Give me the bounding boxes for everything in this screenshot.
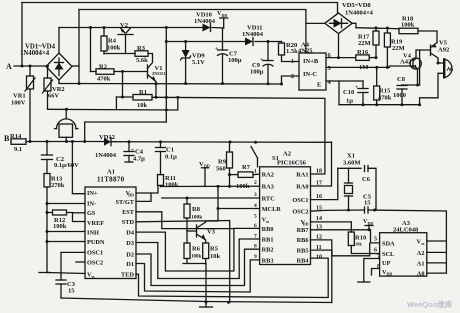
- svg-text:100k: 100k: [107, 45, 121, 52]
- svg-text:RB3: RB3: [262, 257, 274, 264]
- resistor R11: [158, 175, 164, 186]
- svg-text:7: 7: [377, 254, 380, 260]
- svg-text:GS: GS: [87, 210, 96, 217]
- resistor R7: [230, 174, 239, 176]
- wire A3 pin8 stub: [372, 269, 380, 276]
- svg-text:VD5~VD8: VD5~VD8: [342, 2, 371, 9]
- wire vertical x166 from rail27 down to L3: [165, 28, 167, 123]
- svg-text:R8: R8: [192, 206, 201, 213]
- svg-text:100μ: 100μ: [250, 69, 264, 76]
- svg-text:EST: EST: [122, 209, 135, 216]
- svg-text:VD12: VD12: [99, 134, 115, 141]
- capacitor C8: [401, 84, 403, 87]
- varistor VR2: [47, 66, 49, 78]
- wire rail y41.5: [166, 41, 245, 43]
- wire rail y27.5 (top DC rail): [59, 27, 202, 29]
- svg-text:100V: 100V: [11, 100, 26, 107]
- svg-text:RB7: RB7: [297, 227, 309, 234]
- svg-text:5: 5: [374, 237, 377, 243]
- node B and resistor R14: [10, 141, 12, 143]
- svg-text:R1: R1: [139, 89, 147, 96]
- svg-text:1N4004: 1N4004: [242, 31, 264, 38]
- label A2 right pins: [292, 172, 309, 265]
- svg-text:V2: V2: [120, 22, 128, 29]
- svg-text:OSC2: OSC2: [87, 259, 103, 266]
- chip A2 PIC16C56 box: [260, 167, 311, 265]
- svg-text:1: 1: [291, 59, 294, 65]
- wire bridge1 top riser to top rail y28: [58, 28, 60, 54]
- svg-text:ss: ss: [421, 241, 425, 246]
- wire A1 VDD pin hook to rail: [136, 187, 158, 194]
- svg-text:10: 10: [316, 255, 322, 261]
- capacitor C10: [362, 81, 364, 89]
- svg-text:4.7μ: 4.7μ: [133, 156, 145, 163]
- svg-text:R7: R7: [242, 164, 251, 171]
- svg-text:RA3: RA3: [262, 183, 274, 190]
- wire second top rail to A4 drop: [79, 10, 306, 54]
- label A2 pin numbers right: [316, 169, 322, 261]
- svg-text:RB5: RB5: [297, 247, 309, 254]
- svg-text:2N5551: 2N5551: [152, 71, 166, 76]
- svg-text:OSC1: OSC1: [292, 197, 308, 204]
- svg-text:5: 5: [254, 214, 257, 220]
- diode VD11: [245, 38, 253, 46]
- wire A2 RB6 down: [311, 240, 332, 303]
- svg-text:V3: V3: [207, 229, 216, 236]
- svg-text:4N25: 4N25: [298, 48, 313, 55]
- wire INH: [47, 231, 85, 233]
- wire VDD rail y186.5 into A2 RA3: [161, 185, 260, 187]
- svg-text:17: 17: [316, 181, 322, 187]
- svg-text:RA1: RA1: [296, 172, 308, 179]
- wire drop to R2 from rail: [90, 28, 92, 72]
- resistor R2: [91, 71, 97, 73]
- svg-text:RB0: RB0: [262, 226, 274, 233]
- wire A3 UP pin to ground: [364, 259, 380, 283]
- svg-text:470k: 470k: [97, 76, 111, 83]
- svg-text:RA2: RA2: [262, 172, 274, 179]
- wire A2 OSC2 crystal bottom line: [311, 210, 365, 211]
- svg-text:8: 8: [377, 264, 380, 270]
- diode VD10: [203, 24, 211, 32]
- svg-text:A1: A1: [417, 260, 425, 267]
- svg-text:270k: 270k: [51, 182, 65, 189]
- wire A2 VDD pin14 to R10: [311, 221, 352, 223]
- wire A1 D3 to A2 RB1: [136, 239, 260, 279]
- svg-text:2: 2: [254, 180, 257, 186]
- svg-text:INH: INH: [87, 229, 99, 236]
- bridge rectifier VD5~VD8: [325, 13, 352, 34]
- zener VD9: [185, 42, 187, 51]
- wire A1 D2 to A2 RB2: [136, 249, 260, 285]
- wire A2 RB7 to SDA: [311, 230, 380, 243]
- wire RTC line with R8: [162, 197, 260, 199]
- resistor R8: [186, 198, 188, 204]
- label A2 pin numbers left: [254, 169, 257, 261]
- svg-text:D4: D4: [126, 229, 135, 236]
- svg-text:6: 6: [374, 248, 377, 254]
- svg-text:DD: DD: [303, 222, 309, 227]
- svg-text:D1: D1: [126, 261, 134, 268]
- svg-text:15: 15: [316, 206, 322, 212]
- wire bridge2 bottom riser: [338, 34, 340, 58]
- svg-text:WeeQoo维库: WeeQoo维库: [407, 299, 453, 309]
- wire A1 ST/GT hook: [136, 193, 151, 201]
- power VDD tap at C7: [223, 18, 225, 28]
- svg-text:A92: A92: [438, 47, 449, 54]
- svg-text:22M: 22M: [358, 40, 371, 47]
- resistor R20: [281, 42, 283, 44]
- ground stub mid: [205, 264, 207, 307]
- transistor V4: [410, 58, 421, 69]
- svg-text:15: 15: [68, 288, 75, 295]
- svg-text:R6: R6: [192, 246, 201, 253]
- wire A1 TED to A2 RB4 bottom path: [136, 258, 328, 297]
- svg-text:RB4: RB4: [297, 257, 310, 264]
- svg-text:OSC2: OSC2: [292, 209, 308, 216]
- svg-text:0.1μ/60V: 0.1μ/60V: [54, 162, 79, 169]
- capacitor C3: [56, 279, 66, 281]
- svg-text:DD: DD: [222, 13, 228, 18]
- ground bar A1 left: [39, 272, 50, 274]
- wire A4 pin6 line with R16: [326, 57, 356, 59]
- svg-text:X1: X1: [347, 153, 355, 160]
- label A1 left pins: [87, 190, 105, 279]
- svg-text:IN-: IN-: [87, 201, 96, 208]
- svg-text:V5: V5: [439, 40, 448, 47]
- svg-text:18: 18: [316, 169, 322, 175]
- svg-text:C6: C6: [362, 176, 371, 183]
- label A3 left pins: [382, 240, 395, 276]
- svg-text:ss: ss: [266, 219, 270, 224]
- svg-text:+: +: [215, 46, 218, 52]
- label plus marks on polarized caps: [131, 46, 358, 154]
- svg-text:10k: 10k: [355, 242, 363, 247]
- svg-text:560: 560: [216, 166, 226, 173]
- svg-text:8: 8: [254, 244, 257, 250]
- chip A3 24LC048 box: [380, 233, 427, 276]
- resistor R15: [376, 67, 378, 86]
- resistor R5: [203, 243, 209, 259]
- svg-text:66V: 66V: [48, 93, 60, 100]
- chip A1 MT8870 box: [85, 187, 136, 279]
- svg-text:22M: 22M: [392, 45, 405, 52]
- svg-text:R10: R10: [355, 235, 366, 242]
- svg-text:RA0: RA0: [296, 183, 308, 190]
- svg-text:ss: ss: [92, 274, 96, 279]
- svg-text:3: 3: [254, 192, 257, 198]
- transistor V1: [147, 65, 149, 78]
- wire bridge1 right vertex to vertical riser: [72, 65, 79, 67]
- wire top rail from left corner to bridge2 top: [22, 3, 338, 14]
- resistor R1 on wire L1 to A2 RA1 pin18: [116, 96, 133, 98]
- svg-text:9: 9: [254, 254, 257, 260]
- resistor R16: [356, 55, 369, 61]
- wire IN-: [47, 203, 85, 205]
- svg-text:15: 15: [364, 200, 371, 207]
- svg-text:13: 13: [316, 225, 322, 231]
- svg-text:DD: DD: [128, 193, 134, 198]
- transistor V5: [430, 45, 432, 56]
- svg-text:VR1: VR1: [13, 93, 26, 100]
- svg-text:RB2: RB2: [262, 247, 274, 254]
- wire PUDN: [47, 241, 85, 243]
- resistor R3: [104, 53, 135, 55]
- svg-text:1μ: 1μ: [346, 98, 353, 105]
- svg-text:+: +: [355, 85, 358, 91]
- svg-text:A: A: [6, 62, 12, 71]
- svg-text:100k: 100k: [401, 22, 415, 29]
- svg-text:A42: A42: [400, 59, 411, 66]
- wire A1 D1 to A2 RB3: [136, 260, 260, 292]
- switch S1: [251, 147, 258, 159]
- resistor R9: [229, 142, 231, 152]
- wire A1 STD long to A2 Vss drop: [136, 221, 230, 303]
- svg-text:1000: 1000: [393, 92, 406, 99]
- power VDD symbol A3: [368, 226, 370, 230]
- capacitor C4: [128, 142, 130, 152]
- resistor R19: [386, 28, 388, 33]
- resistor R10: [350, 222, 352, 232]
- svg-text:ST/GT: ST/GT: [115, 199, 134, 206]
- svg-text:PUDN: PUDN: [87, 239, 105, 246]
- svg-text:9.1: 9.1: [14, 146, 22, 153]
- svg-text:470k: 470k: [378, 95, 392, 102]
- svg-text:VREF: VREF: [87, 220, 104, 227]
- svg-text:100k: 100k: [53, 223, 67, 230]
- svg-text:D2: D2: [126, 251, 134, 258]
- wire A4 pin2 to return rail: [282, 76, 300, 84]
- svg-text:OSC1: OSC1: [87, 250, 103, 257]
- svg-text:C1: C1: [166, 147, 174, 154]
- wire top right rail y27.7: [356, 27, 395, 30]
- wire A4 pin4 E line: [326, 80, 363, 82]
- svg-text:DD: DD: [204, 164, 210, 169]
- svg-text:E: E: [317, 82, 321, 89]
- transistor V2: [118, 34, 133, 36]
- svg-text:SCL: SCL: [382, 251, 394, 258]
- svg-text:5.1V: 5.1V: [192, 59, 205, 66]
- svg-text:1.5k: 1.5k: [286, 48, 298, 55]
- svg-text:16: 16: [316, 194, 322, 200]
- wire bottom rail right: [339, 104, 420, 106]
- wire IN+ vertical from B rail: [72, 142, 85, 194]
- svg-text:R2: R2: [99, 64, 107, 71]
- wire R2 drop to R1: [122, 72, 124, 98]
- resistor R18: [399, 28, 418, 34]
- svg-text:100μ: 100μ: [228, 57, 242, 64]
- svg-text:C4: C4: [135, 149, 144, 156]
- svg-text:100k: 100k: [191, 215, 203, 221]
- svg-text:C10: C10: [343, 89, 354, 96]
- svg-text:100k: 100k: [236, 183, 250, 190]
- svg-text:R9: R9: [218, 159, 227, 166]
- svg-text:0.1μ: 0.1μ: [165, 154, 177, 161]
- svg-text:TED: TED: [121, 272, 134, 279]
- bridge rectifier VD1~VD4: [46, 53, 72, 80]
- svg-text:R15: R15: [379, 88, 391, 95]
- wire bridge2 right vertex to rail: [352, 23, 356, 27]
- wire OSC1 to C3: [61, 252, 85, 280]
- svg-text:1: 1: [254, 169, 257, 175]
- svg-text:A2: A2: [283, 151, 291, 158]
- svg-text:1M: 1M: [359, 64, 368, 71]
- diode VD12: [104, 138, 111, 146]
- resistor R13: [44, 174, 50, 188]
- svg-text:6: 6: [254, 223, 257, 229]
- svg-text:+: +: [131, 148, 134, 154]
- svg-text:PIC16C56: PIC16C56: [277, 160, 307, 167]
- capacitor C6: [364, 166, 366, 172]
- varistor VR1: [29, 66, 31, 76]
- wire V3 collector to MCLR and RA3 rail: [206, 186, 218, 221]
- power VDD symbol mid: [204, 168, 206, 187]
- svg-text:R16: R16: [357, 49, 369, 56]
- wire bell rail / L2: [48, 97, 178, 110]
- svg-text:10k: 10k: [210, 253, 221, 260]
- svg-text:2: 2: [291, 74, 294, 80]
- wire A-line junction dots: [21, 65, 50, 68]
- svg-text:RB6: RB6: [297, 237, 309, 244]
- capacitor C2: [46, 142, 48, 156]
- bell ringer: [57, 119, 76, 129]
- wire bottom ground rail: [61, 298, 332, 303]
- svg-text:1N4004: 1N4004: [194, 18, 216, 25]
- svg-text:R4: R4: [108, 38, 117, 45]
- svg-text:A2: A2: [417, 250, 425, 257]
- label A2 left pins: [262, 172, 282, 265]
- svg-text:R5: R5: [210, 246, 219, 253]
- svg-text:1N4004: 1N4004: [95, 152, 117, 159]
- svg-text:100k: 100k: [191, 255, 202, 260]
- wire L3 bypass: [85, 122, 167, 142]
- svg-text:R14: R14: [10, 133, 22, 140]
- svg-text:DD: DD: [368, 221, 374, 226]
- svg-text:IN+: IN+: [87, 190, 98, 197]
- wire A1 EST: [136, 212, 234, 229]
- svg-text:11: 11: [316, 245, 322, 251]
- svg-text:A1: A1: [107, 169, 115, 176]
- svg-text:RTC: RTC: [262, 195, 276, 202]
- chip A4 4N25 box: [299, 53, 326, 90]
- svg-text:+: +: [260, 57, 263, 63]
- svg-text:STD: STD: [122, 219, 135, 226]
- node A wire: [14, 65, 46, 67]
- svg-text:MCLR: MCLR: [262, 206, 282, 213]
- resistor R17: [375, 28, 377, 31]
- wire V4 collector tie: [416, 50, 420, 58]
- wire A4 pin5 line: [326, 66, 389, 68]
- svg-text:5.6k: 5.6k: [136, 57, 148, 64]
- svg-text:IN+B: IN+B: [303, 58, 319, 65]
- svg-text:SDA: SDA: [382, 240, 395, 247]
- svg-text:DD: DD: [387, 272, 393, 277]
- svg-text:100k: 100k: [165, 182, 179, 189]
- svg-text:12: 12: [316, 235, 322, 241]
- wire A2 OSC1 to crystal top: [311, 168, 338, 199]
- svg-text:1N4004×4: 1N4004×4: [345, 10, 374, 17]
- wire A3 right pins to common vertical: [427, 240, 447, 242]
- label A1 right pins: [115, 190, 134, 279]
- svg-text:14: 14: [316, 216, 322, 222]
- svg-text:A0: A0: [417, 271, 425, 278]
- svg-text:RB1: RB1: [262, 237, 274, 244]
- svg-text:7: 7: [254, 234, 257, 240]
- resistor R6: [184, 243, 190, 259]
- svg-text:IN-C: IN-C: [303, 71, 317, 78]
- capacitor C5: [364, 207, 366, 213]
- svg-text:10k: 10k: [137, 102, 148, 109]
- label A3 pin numbers: [374, 237, 380, 271]
- capacitor C9: [267, 42, 269, 61]
- capacitor C7: [222, 28, 224, 50]
- resistor R4: [103, 28, 105, 37]
- svg-text:4: 4: [254, 203, 257, 209]
- wire OSC2 stub: [76, 261, 85, 263]
- svg-text:24LC048: 24LC048: [393, 227, 419, 234]
- crystal X1: [338, 167, 361, 169]
- label A3 right pins: [416, 239, 424, 278]
- wire B rail drop to A2 RA0 pin17: [311, 142, 332, 186]
- wire V5 return lines: [420, 98, 438, 105]
- transistor V3: [196, 225, 198, 237]
- speaker: [445, 59, 452, 77]
- svg-text:UP: UP: [382, 260, 391, 267]
- wire left vertical down to node A line: [21, 3, 23, 67]
- resistor R12: [53, 210, 67, 215]
- capacitor C1: [160, 142, 162, 148]
- wire A2 RB5 to SDA join: [311, 244, 370, 256]
- wire return rail y83.5: [59, 83, 282, 86]
- svg-text:3.60M: 3.60M: [343, 160, 361, 167]
- svg-text:C8: C8: [397, 76, 406, 83]
- svg-text:R3: R3: [137, 45, 146, 52]
- wire A1 D4 to A2 RB0: [136, 228, 260, 271]
- svg-text:11T8870: 11T8870: [97, 176, 125, 184]
- svg-text:1N4004×4: 1N4004×4: [20, 50, 50, 57]
- svg-text:D3: D3: [126, 240, 134, 247]
